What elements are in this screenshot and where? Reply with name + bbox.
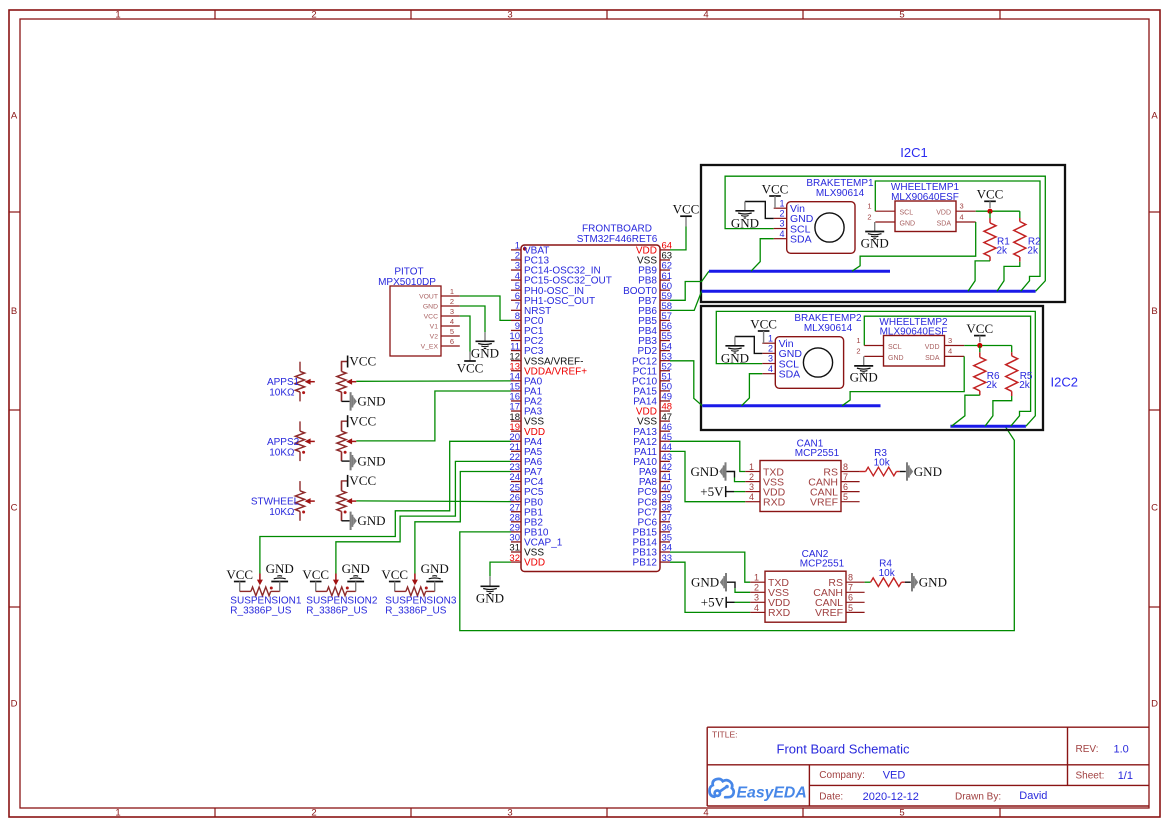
svg-text:10KΩ: 10KΩ [269, 507, 295, 518]
power VCC for STWHEEL [342, 481, 348, 491]
resistor R2 2k [1019, 211, 1021, 218]
svg-text:MPX5010DP: MPX5010DP [378, 277, 436, 288]
ground GND for WHEELTEMP1 [874, 222, 876, 232]
wire PC12 to I2C2 SDA bus [670, 361, 702, 406]
svg-text:1: 1 [450, 287, 454, 296]
svg-text:6: 6 [848, 593, 853, 603]
wire PB13 to CAN2 TXD [670, 552, 750, 582]
svg-text:GND: GND [900, 221, 916, 228]
svg-text:2k: 2k [1019, 380, 1031, 391]
svg-text:I2C1: I2C1 [900, 145, 927, 160]
svg-text:2k: 2k [997, 246, 1009, 257]
svg-text:R_3386P_US: R_3386P_US [306, 606, 367, 617]
power VCC for BRAKETEMP2 [758, 330, 770, 332]
potentiometer APPS2 (wired gang) [341, 421, 343, 431]
pin 28 PB2 [511, 521, 521, 523]
ground GND after R3 [906, 462, 908, 480]
pin 23 PA7 [511, 470, 521, 472]
svg-text:PB12: PB12 [633, 558, 658, 569]
potentiometer STWHEEL (loose gang) [299, 481, 301, 491]
svg-text:B: B [1151, 306, 1157, 317]
IC CAN2 MCP2551 [765, 571, 846, 622]
power VCC for SUSPENSION1 [234, 581, 246, 583]
pin 33 PB12 [660, 561, 670, 563]
sensor PITOT MPX5010DP [390, 286, 441, 356]
svg-text:1: 1 [768, 333, 773, 343]
svg-text:3: 3 [507, 807, 512, 818]
svg-text:+5V: +5V [700, 484, 724, 499]
svg-text:VCC: VCC [424, 313, 438, 320]
ground GND after R4 [911, 573, 913, 591]
svg-text:MLX90614: MLX90614 [804, 323, 853, 334]
pin 5 PH0-OSC_IN [511, 289, 521, 291]
pin 64 VDD [660, 249, 670, 251]
pin 37 PC6 [660, 521, 670, 523]
svg-text:GND: GND [721, 350, 749, 365]
pin 32 VDD [511, 561, 521, 563]
svg-text:V_EX: V_EX [421, 343, 439, 350]
pin 48 VDD [660, 410, 670, 412]
pin 27 PB1 [511, 511, 521, 513]
pin 53 PC12 [660, 360, 670, 362]
wire R6 to bus [952, 395, 980, 426]
pin 25 PC5 [511, 491, 521, 493]
pin 9 PC1 [511, 329, 521, 331]
pin 57 PB5 [660, 319, 670, 321]
junction [987, 209, 992, 214]
svg-text:2: 2 [749, 472, 754, 482]
svg-text:GND: GND [421, 561, 449, 576]
wire PITOT VOUT to PC0 [460, 296, 511, 320]
svg-text:4: 4 [749, 492, 754, 502]
power +5V for CAN1 [725, 486, 727, 497]
svg-text:4: 4 [960, 212, 964, 221]
svg-text:MLX90640ESF: MLX90640ESF [891, 192, 959, 203]
svg-text:VED: VED [883, 770, 906, 782]
pin 52 PC11 [660, 370, 670, 372]
svg-text:GND: GND [731, 215, 759, 230]
svg-text:VCC: VCC [226, 567, 253, 582]
svg-text:APPS1: APPS1 [267, 377, 300, 388]
svg-text:GND: GND [914, 464, 942, 479]
pin 20 PA4 [511, 440, 521, 442]
pin 45 PA12 [660, 440, 670, 442]
resistor R3 10k [860, 471, 866, 473]
wire WHEELTEMP1 SDA to bus [852, 222, 976, 271]
wire PB12 to CAN2 RXD [670, 562, 750, 612]
svg-text:GND: GND [357, 394, 385, 409]
svg-text:2: 2 [779, 209, 784, 219]
wire APPS1 wiper to PA0 [356, 380, 511, 382]
title block [707, 726, 1149, 728]
svg-text:4: 4 [754, 603, 759, 613]
pin 47 VSS [660, 420, 670, 422]
svg-text:GND: GND [471, 346, 499, 361]
svg-text:VCC: VCC [381, 567, 408, 582]
svg-text:2: 2 [311, 807, 316, 818]
ground GND for STWHEEL [341, 511, 343, 520]
svg-text:1: 1 [779, 198, 784, 208]
wire R2 to SDA bus [997, 262, 1020, 292]
wire PITOT VCC [460, 316, 470, 352]
pin 42 PA9 [660, 470, 670, 472]
svg-text:1: 1 [115, 10, 120, 21]
pin 56 PB4 [660, 329, 670, 331]
wire I2C2 SCL rail [716, 311, 1035, 426]
svg-text:A: A [11, 111, 18, 122]
I2C2 block frame [701, 306, 1043, 430]
svg-text:VCC: VCC [349, 354, 376, 369]
svg-text:10k: 10k [874, 457, 891, 468]
svg-text:VCC: VCC [673, 202, 700, 217]
svg-text:6: 6 [843, 482, 848, 492]
wire SUSPENSION2 to PA6 [336, 461, 511, 573]
wire R5 to bus [985, 396, 1012, 426]
wire R1 to SCL bus [968, 261, 990, 291]
svg-text:1: 1 [754, 573, 759, 583]
bus I2C2 SDA [702, 404, 880, 407]
svg-text:7: 7 [843, 472, 848, 482]
pin 38 PC7 [660, 511, 670, 513]
svg-text:GND: GND [476, 591, 504, 606]
svg-text:GND: GND [888, 355, 904, 362]
pin 50 PA15 [660, 390, 670, 392]
pin 11 PC3 [511, 350, 521, 352]
pin 41 PA8 [660, 481, 670, 483]
svg-text:4: 4 [779, 229, 784, 239]
svg-text:3: 3 [960, 202, 964, 211]
svg-text:REV:: REV: [1076, 744, 1099, 755]
bus I2C1 SDA [709, 270, 890, 273]
pin 36 PB15 [660, 531, 670, 533]
sensor WHEELTEMP1 MLX90640ESF [895, 201, 956, 232]
wire SUSPENSION3 to PA7 [415, 472, 511, 574]
bus I2C1 SCL [702, 290, 1036, 293]
svg-text:MCP2551: MCP2551 [795, 448, 840, 459]
svg-text:2: 2 [450, 297, 454, 306]
svg-text:V2: V2 [430, 333, 439, 340]
svg-text:SCL: SCL [888, 344, 902, 351]
svg-text:VDD: VDD [524, 558, 545, 569]
pin 59 PB7 [660, 299, 670, 301]
pin 55 PB3 [660, 340, 670, 342]
svg-text:4: 4 [450, 317, 454, 326]
svg-text:VOUT: VOUT [419, 293, 438, 300]
svg-text:8: 8 [843, 462, 848, 472]
svg-text:4: 4 [703, 10, 708, 21]
sensor WHEELTEMP2 MLX90640ESF [884, 336, 945, 367]
svg-text:VCC: VCC [349, 473, 376, 488]
wire WHEELTEMP1 VDD [976, 210, 1020, 212]
svg-text:Sheet:: Sheet: [1076, 771, 1105, 782]
pin 54 PD2 [660, 350, 670, 352]
pin 17 PA3 [511, 410, 521, 412]
svg-text:Company:: Company: [819, 770, 865, 781]
power VCC pullups I2C1 [984, 200, 996, 202]
pin 1 VBAT [511, 249, 521, 251]
svg-text:GND: GND [691, 464, 719, 479]
svg-text:1: 1 [867, 202, 871, 211]
svg-text:1: 1 [749, 462, 754, 472]
ground GND for BRAKETEMP2 [735, 337, 762, 354]
svg-text:David: David [1019, 790, 1047, 802]
pin 18 VSS [511, 420, 521, 422]
svg-text:10k: 10k [879, 568, 896, 579]
svg-text:SCL: SCL [900, 210, 914, 217]
wire PA12 to CAN1 TXD [670, 441, 745, 471]
svg-text:GND: GND [850, 370, 878, 385]
pin 35 PB14 [660, 541, 670, 543]
svg-text:4: 4 [703, 807, 708, 818]
svg-text:VREF: VREF [810, 497, 838, 509]
wire STWHEEL wiper to PB0 [356, 500, 511, 503]
svg-text:PITOT: PITOT [394, 267, 423, 278]
pin 46 PA13 [660, 430, 670, 432]
svg-text:APPS2: APPS2 [267, 437, 300, 448]
svg-text:C: C [11, 503, 18, 514]
resistor R4 10k [865, 581, 871, 583]
svg-text:32: 32 [509, 553, 520, 564]
svg-text:1: 1 [115, 807, 120, 818]
svg-text:3: 3 [948, 336, 952, 345]
pin 62 PB9 [660, 269, 670, 271]
svg-text:Date:: Date: [819, 791, 843, 802]
pin 4 PC15-OSC32_OUT [511, 279, 521, 281]
svg-text:RXD: RXD [768, 607, 791, 619]
svg-text:VCC: VCC [977, 187, 1004, 202]
wire PB7 to I2C1 SDA bus [670, 271, 709, 300]
svg-text:3: 3 [754, 593, 759, 603]
svg-text:Drawn By:: Drawn By: [955, 791, 1001, 802]
sensor BRAKETEMP1 MLX90614 [787, 202, 855, 254]
svg-text:VREF: VREF [815, 607, 843, 619]
svg-text:10KΩ: 10KΩ [269, 447, 295, 458]
svg-text:EasyEDA: EasyEDA [737, 784, 807, 801]
svg-text:GND: GND [357, 453, 385, 468]
wire WHEELTEMP1 SCL rail [875, 181, 1040, 291]
pin 24 PC4 [511, 481, 521, 483]
ground GND for BRAKETEMP1 [745, 202, 774, 219]
pin 40 PC9 [660, 491, 670, 493]
pin 34 PB13 [660, 551, 670, 553]
svg-text:Front Board Schematic: Front Board Schematic [777, 742, 910, 757]
ground GND for SUSPENSION3 [426, 581, 443, 583]
svg-text:2: 2 [768, 344, 773, 354]
svg-text:VDD: VDD [925, 344, 940, 351]
pin 6 PH1-OSC_OUT [511, 299, 521, 301]
ground GND for APPS2 [341, 452, 343, 461]
svg-text:MCP2551: MCP2551 [800, 559, 845, 570]
pin 8 PC0 [511, 319, 521, 321]
wire WHEELTEMP2 SCL rail [864, 316, 1030, 426]
power VCC for VDD pin64 [670, 227, 686, 250]
ground GND for CAN2 [725, 573, 727, 591]
svg-text:TITLE:: TITLE: [712, 730, 738, 740]
power VCC for APPS1 [342, 362, 348, 372]
svg-text:D: D [11, 699, 18, 710]
svg-text:2: 2 [311, 10, 316, 21]
svg-text:VCC: VCC [457, 361, 484, 376]
svg-text:+5V: +5V [701, 595, 725, 610]
power VCC pullups I2C2 [974, 335, 986, 337]
resistor R6 2k [979, 346, 981, 353]
svg-text:C: C [1151, 503, 1158, 514]
svg-text:SDA: SDA [790, 233, 812, 245]
power VCC for BRAKETEMP1 [769, 195, 781, 197]
svg-text:3: 3 [749, 482, 754, 492]
svg-text:1: 1 [856, 336, 860, 345]
power +5V for CAN2 [725, 597, 727, 608]
svg-text:3: 3 [779, 219, 784, 229]
wire APPS2 wiper to PA1 [356, 391, 511, 441]
svg-text:2k: 2k [986, 380, 998, 391]
svg-text:A: A [1151, 111, 1158, 122]
svg-text:GND: GND [861, 235, 889, 250]
ground GND for WHEELTEMP2 [863, 356, 865, 366]
svg-text:2: 2 [754, 583, 759, 593]
pin 16 PA2 [511, 400, 521, 402]
svg-text:5: 5 [843, 492, 848, 502]
wire PB6 to I2C1 SCL bus [670, 291, 702, 310]
svg-text:RXD: RXD [763, 497, 786, 509]
svg-text:5: 5 [899, 807, 904, 818]
svg-text:SDA: SDA [937, 221, 952, 228]
svg-text:GND: GND [357, 513, 385, 528]
svg-text:STWHEEL: STWHEEL [251, 497, 300, 508]
svg-text:I2C2: I2C2 [1051, 375, 1078, 390]
pin 3 PC14-OSC32_IN [511, 269, 521, 271]
ground GND near PITOT [484, 332, 486, 341]
svg-text:1/1: 1/1 [1118, 770, 1133, 782]
svg-text:4: 4 [768, 364, 773, 374]
svg-text:FRONTBOARD: FRONTBOARD [582, 224, 652, 235]
svg-text:2: 2 [867, 212, 871, 221]
svg-text:B: B [11, 306, 17, 317]
sensor BRAKETEMP2 MLX90614 [775, 337, 843, 389]
wire WHEELTEMP2 SDA to bus [842, 356, 964, 405]
IC FRONTBOARD STM32F446RET6 [521, 245, 660, 572]
svg-text:5: 5 [899, 10, 904, 21]
svg-text:1.0: 1.0 [1114, 744, 1129, 756]
potentiometer STWHEEL (wired gang) [341, 481, 343, 491]
pin 49 PA14 [660, 400, 670, 402]
svg-text:VDD: VDD [936, 210, 951, 217]
pin 39 PC8 [660, 501, 670, 503]
pin 19 VDD [511, 430, 521, 432]
pin 10 PC2 [511, 340, 521, 342]
svg-text:10KΩ: 10KΩ [269, 388, 295, 399]
svg-text:R_3386P_US: R_3386P_US [385, 606, 446, 617]
pin 14 PA0 [511, 380, 521, 382]
svg-text:MLX90640ESF: MLX90640ESF [880, 327, 948, 338]
svg-text:GND: GND [342, 561, 370, 576]
pin 51 PC10 [660, 380, 670, 382]
svg-text:V1: V1 [430, 323, 439, 330]
pin 61 PB8 [660, 279, 670, 281]
svg-text:VCC: VCC [750, 316, 777, 331]
bus I2C2 SCL [950, 425, 1026, 428]
pin 2 PC13 [511, 259, 521, 261]
power VCC for SUSPENSION3 [389, 581, 401, 583]
svg-text:2020-12-12: 2020-12-12 [863, 791, 919, 803]
svg-text:5: 5 [848, 603, 853, 613]
pin 26 PB0 [511, 501, 521, 503]
ground GND for SUSPENSION2 [347, 581, 364, 583]
svg-text:R_3386P_US: R_3386P_US [230, 606, 291, 617]
svg-text:VCC: VCC [966, 321, 993, 336]
ground GND for SUSPENSION1 [271, 581, 288, 583]
pin 12 VSSA/VREF- [511, 360, 521, 362]
power VCC for SUSPENSION2 [310, 581, 322, 583]
junction [977, 343, 982, 348]
svg-text:D: D [1151, 699, 1158, 710]
resistor R5 2k [1011, 346, 1013, 353]
wire WHEELTEMP2 VDD [964, 345, 1012, 347]
svg-text:6: 6 [450, 337, 454, 346]
svg-text:3: 3 [450, 307, 454, 316]
svg-text:8: 8 [848, 573, 853, 583]
pin 13 VDDA/VREF+ [511, 370, 521, 372]
wire VDD pin32 [490, 562, 511, 576]
pin 58 PB6 [660, 309, 670, 311]
pin 44 PA11 [660, 450, 670, 452]
wire PITOT GND [460, 306, 485, 332]
svg-text:3: 3 [507, 10, 512, 21]
svg-text:3: 3 [768, 354, 773, 364]
potentiometer APPS1 (wired gang) [341, 362, 343, 372]
power VCC below PITOT [469, 352, 471, 362]
svg-text:STM32F446RET6: STM32F446RET6 [577, 234, 658, 245]
pin 63 VSS [660, 259, 670, 261]
svg-text:VCC: VCC [349, 413, 376, 428]
EasyEDA logo [709, 779, 733, 797]
pin 60 BOOT0 [660, 289, 670, 291]
pin 21 PA5 [511, 450, 521, 452]
potentiometer APPS2 (loose gang) [299, 421, 301, 431]
svg-text:SDA: SDA [925, 355, 940, 362]
pin 15 PA1 [511, 390, 521, 392]
wire BRAKETEMP2 SDA to bus [742, 374, 763, 406]
wire BRAKETEMP1 SDA to bus [751, 239, 774, 272]
wire PA11 to CAN1 RXD [670, 451, 745, 501]
pin 29 PB10 [511, 531, 521, 533]
svg-text:SDA: SDA [779, 368, 801, 380]
ground GND below MCU [489, 576, 491, 586]
svg-text:GND: GND [423, 303, 438, 310]
ground GND for CAN1 [725, 462, 727, 480]
svg-text:7: 7 [848, 583, 853, 593]
wire I2C1 SCL rail [725, 176, 1045, 291]
svg-text:MLX90614: MLX90614 [816, 188, 865, 199]
IC CAN1 MCP2551 [760, 461, 841, 512]
pin 31 VSS [511, 551, 521, 553]
svg-text:5: 5 [450, 327, 454, 336]
pin 30 VCAP_1 [511, 541, 521, 543]
svg-text:VCC: VCC [302, 567, 329, 582]
I2C1 block frame [701, 165, 1065, 302]
svg-text:GND: GND [691, 575, 719, 590]
pin 22 PA6 [511, 460, 521, 462]
svg-text:VCC: VCC [762, 181, 789, 196]
svg-text:GND: GND [919, 575, 947, 590]
svg-text:4: 4 [948, 347, 952, 356]
pin 7 NRST [511, 309, 521, 311]
svg-text:2k: 2k [1027, 246, 1039, 257]
ground GND for APPS1 [341, 392, 343, 401]
wire PB10 to I2C2 bus [460, 427, 1015, 630]
potentiometer APPS1 (loose gang) [299, 362, 301, 372]
wire SUSPENSION1 to PA4 [260, 441, 511, 573]
